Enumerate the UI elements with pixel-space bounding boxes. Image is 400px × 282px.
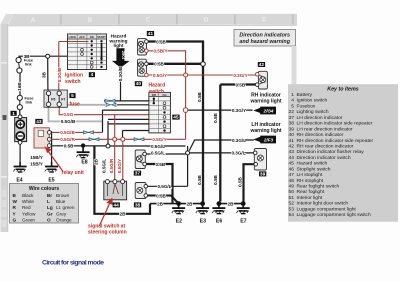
- svg-text:54: 54: [289, 212, 295, 218]
- svg-text:0.5G/R: 0.5G/R: [60, 137, 75, 142]
- svg-text:5: 5: [71, 93, 74, 99]
- svg-text:O: O: [47, 218, 51, 223]
- svg-text:42: 42: [259, 62, 265, 68]
- svg-text:LH direction indicator: LH direction indicator: [297, 115, 343, 121]
- svg-text:warning light: warning light: [249, 128, 281, 134]
- svg-text:0.5G/B: 0.5G/B: [61, 119, 76, 124]
- svg-text:B: B: [88, 18, 93, 24]
- svg-text:47: 47: [289, 172, 295, 178]
- svg-text:2B: 2B: [157, 201, 164, 206]
- svg-text:15B/Y: 15B/Y: [30, 155, 43, 160]
- svg-text:41: 41: [148, 31, 154, 37]
- svg-text:4: 4: [91, 72, 94, 78]
- svg-text:Yellow: Yellow: [22, 211, 36, 216]
- svg-text:RH rear direction indicator: RH rear direction indicator: [297, 144, 354, 150]
- svg-text:E2: E2: [176, 219, 182, 225]
- svg-text:Rear foglight switch: Rear foglight switch: [297, 184, 340, 190]
- svg-text:switch: switch: [149, 89, 165, 95]
- svg-text:E7: E7: [240, 219, 246, 225]
- svg-text:2B: 2B: [94, 158, 99, 165]
- svg-text:0.5B: 0.5B: [155, 162, 165, 167]
- svg-text:1: 1: [291, 92, 294, 98]
- svg-text:Direction indicator switch: Direction indicator switch: [297, 155, 351, 161]
- svg-text:ON: ON: [90, 35, 94, 39]
- svg-text:37: 37: [135, 171, 141, 177]
- svg-text:Ignition: Ignition: [65, 73, 83, 79]
- svg-text:Interior light door switch: Interior light door switch: [297, 201, 349, 207]
- svg-text:16B: 16B: [17, 82, 22, 91]
- svg-text:C: C: [146, 18, 151, 24]
- svg-text:0.5G/Y: 0.5G/Y: [153, 73, 167, 78]
- svg-text:0.5B: 0.5B: [197, 174, 202, 184]
- svg-text:48: 48: [289, 178, 295, 184]
- svg-text:0.5G/L: 0.5G/L: [102, 159, 107, 173]
- svg-text:39: 39: [260, 171, 266, 177]
- svg-text:Black: Black: [22, 193, 34, 198]
- svg-text:2/F3: 2/F3: [263, 138, 274, 143]
- svg-text:link: link: [25, 62, 33, 67]
- svg-text:40: 40: [136, 81, 142, 87]
- svg-text:0.5G/L: 0.5G/L: [157, 184, 171, 189]
- svg-text:START: START: [97, 35, 106, 39]
- svg-text:44: 44: [114, 202, 120, 208]
- svg-text:0.5G/Y: 0.5G/Y: [152, 137, 166, 142]
- svg-text:Luggage compartment light swit: Luggage compartment light switch: [297, 212, 371, 218]
- svg-text:E8: E8: [81, 160, 87, 166]
- svg-text:LH rear direction indicator: LH rear direction indicator: [297, 126, 353, 132]
- svg-text:0.5B: 0.5B: [64, 144, 74, 149]
- svg-text:Lg: Lg: [47, 205, 53, 210]
- svg-text:link: link: [26, 100, 34, 105]
- svg-text:Hazard switch: Hazard switch: [297, 161, 328, 167]
- svg-text:0.5B: 0.5B: [235, 82, 245, 87]
- svg-text:50: 50: [289, 189, 295, 195]
- svg-text:Hazard: Hazard: [149, 83, 166, 89]
- svg-text:Blue: Blue: [56, 199, 66, 204]
- svg-text:15B/Y: 15B/Y: [30, 162, 43, 167]
- svg-text:E: E: [262, 17, 266, 23]
- svg-text:52: 52: [289, 201, 295, 207]
- svg-text:Brown: Brown: [56, 193, 70, 198]
- svg-text:W: W: [13, 199, 18, 204]
- svg-text:relay unit: relay unit: [62, 170, 85, 176]
- svg-text:E4: E4: [16, 178, 22, 184]
- svg-text:G: G: [13, 218, 17, 223]
- svg-text:0.3G/Y: 0.3G/Y: [233, 73, 247, 78]
- svg-text:0.5G/R: 0.5G/R: [109, 158, 114, 173]
- svg-text:44: 44: [289, 155, 295, 161]
- svg-text:Orange: Orange: [56, 218, 72, 223]
- svg-text:Direction indicator flasher re: Direction indicator flasher relay: [297, 149, 365, 155]
- svg-text:Stoplight switch: Stoplight switch: [297, 166, 331, 172]
- svg-text:0.3G/B: 0.3G/B: [118, 66, 123, 81]
- svg-text:Br: Br: [47, 193, 52, 198]
- svg-text:3B: 3B: [24, 54, 31, 59]
- svg-text:2/G4: 2/G4: [263, 109, 274, 114]
- svg-text:F5: F5: [51, 98, 55, 102]
- svg-text:Green: Green: [22, 218, 35, 223]
- svg-text:43: 43: [36, 119, 42, 125]
- svg-text:Circuit for signal mode: Circuit for signal mode: [42, 260, 104, 267]
- svg-text:2B: 2B: [187, 201, 194, 206]
- svg-text:Gr: Gr: [47, 211, 53, 216]
- svg-text:4: 4: [291, 98, 294, 104]
- svg-text:Lt. green: Lt. green: [56, 205, 75, 210]
- svg-text:switch: switch: [65, 79, 81, 85]
- svg-text:0.3G/B: 0.3G/B: [57, 67, 62, 82]
- svg-text:fuse: fuse: [70, 101, 81, 107]
- svg-text:F7: F7: [61, 98, 65, 102]
- svg-text:46: 46: [289, 166, 295, 172]
- svg-text:1: 1: [12, 111, 15, 117]
- svg-text:45: 45: [289, 161, 295, 167]
- svg-text:Battery: Battery: [297, 92, 313, 98]
- svg-text:0.3G/L: 0.3G/L: [232, 138, 246, 143]
- svg-text:LOCK: LOCK: [69, 35, 76, 39]
- svg-text:0.5G/L: 0.5G/L: [151, 151, 165, 156]
- svg-text:Red: Red: [22, 205, 31, 210]
- svg-text:E3: E3: [200, 219, 206, 225]
- svg-text:0.5B: 0.5B: [238, 176, 243, 186]
- svg-text:22: 22: [289, 109, 295, 115]
- svg-text:Ignition switch: Ignition switch: [297, 98, 328, 104]
- svg-text:38: 38: [135, 202, 141, 208]
- svg-text:light: light: [114, 43, 124, 48]
- svg-text:2B: 2B: [228, 201, 235, 206]
- svg-text:Lighting switch: Lighting switch: [297, 109, 329, 115]
- svg-text:49: 49: [289, 184, 295, 190]
- svg-text:RH direction indicator: RH direction indicator: [297, 132, 344, 138]
- svg-text:Fusebox: Fusebox: [297, 103, 316, 109]
- svg-text:41: 41: [289, 138, 295, 144]
- svg-text:LH stoplight: LH stoplight: [297, 172, 323, 178]
- svg-text:Wire colours: Wire colours: [29, 186, 59, 192]
- svg-text:Grey: Grey: [56, 211, 67, 216]
- svg-text:warning light: warning light: [249, 99, 281, 105]
- svg-text:0.5G/B: 0.5G/B: [60, 130, 75, 135]
- svg-text:45: 45: [173, 115, 179, 121]
- svg-text:ACC: ACC: [79, 35, 85, 39]
- svg-text:steering column: steering column: [88, 230, 127, 236]
- svg-text:0.5B: 0.5B: [156, 193, 166, 198]
- svg-text:0.5G/L: 0.5G/L: [151, 144, 165, 149]
- svg-text:and hazard warning: and hazard warning: [239, 39, 290, 45]
- svg-text:0.5G/Y: 0.5G/Y: [117, 159, 122, 173]
- svg-text:0.5B: 0.5B: [197, 91, 202, 101]
- svg-text:51: 51: [289, 195, 295, 201]
- svg-text:0.3G/L: 0.3G/L: [231, 151, 245, 156]
- svg-text:0.5G: 0.5G: [63, 112, 73, 117]
- svg-text:0.5B/Y: 0.5B/Y: [153, 49, 167, 54]
- svg-text:5: 5: [291, 103, 294, 109]
- svg-text:42: 42: [289, 144, 295, 150]
- svg-text:39: 39: [289, 126, 295, 132]
- svg-text:E6: E6: [216, 219, 222, 225]
- svg-text:2B: 2B: [120, 212, 127, 217]
- svg-text:L: L: [47, 199, 50, 204]
- svg-text:0.5B: 0.5B: [213, 112, 218, 122]
- svg-text:0.5B: 0.5B: [213, 174, 218, 184]
- svg-text:Rear foglight: Rear foglight: [297, 189, 325, 195]
- svg-text:2/K4: 2/K4: [121, 51, 126, 60]
- svg-text:Direction indicators: Direction indicators: [239, 33, 290, 39]
- svg-text:RH direction indicator side re: RH direction indicator side repeater: [297, 138, 374, 144]
- svg-text:White: White: [22, 199, 34, 204]
- svg-text:0.5B: 0.5B: [156, 39, 166, 44]
- svg-text:A: A: [31, 18, 36, 24]
- svg-text:D: D: [204, 18, 209, 24]
- svg-text:3B: 3B: [41, 71, 46, 78]
- svg-text:53: 53: [289, 206, 295, 212]
- svg-text:40: 40: [289, 132, 295, 138]
- svg-text:43: 43: [289, 149, 295, 155]
- svg-text:LH direction indicator side re: LH direction indicator side repeater: [297, 121, 373, 127]
- svg-text:Luggage compartment light: Luggage compartment light: [297, 206, 357, 212]
- svg-text:Key to items: Key to items: [327, 86, 359, 92]
- svg-text:0.5B: 0.5B: [154, 62, 164, 67]
- svg-text:37: 37: [289, 115, 295, 121]
- svg-text:Interior light: Interior light: [297, 195, 323, 201]
- svg-text:38: 38: [289, 121, 295, 127]
- svg-text:0.3G/Y: 0.3G/Y: [232, 108, 246, 113]
- svg-text:E5: E5: [48, 178, 54, 184]
- svg-text:RH stoplight: RH stoplight: [297, 178, 324, 184]
